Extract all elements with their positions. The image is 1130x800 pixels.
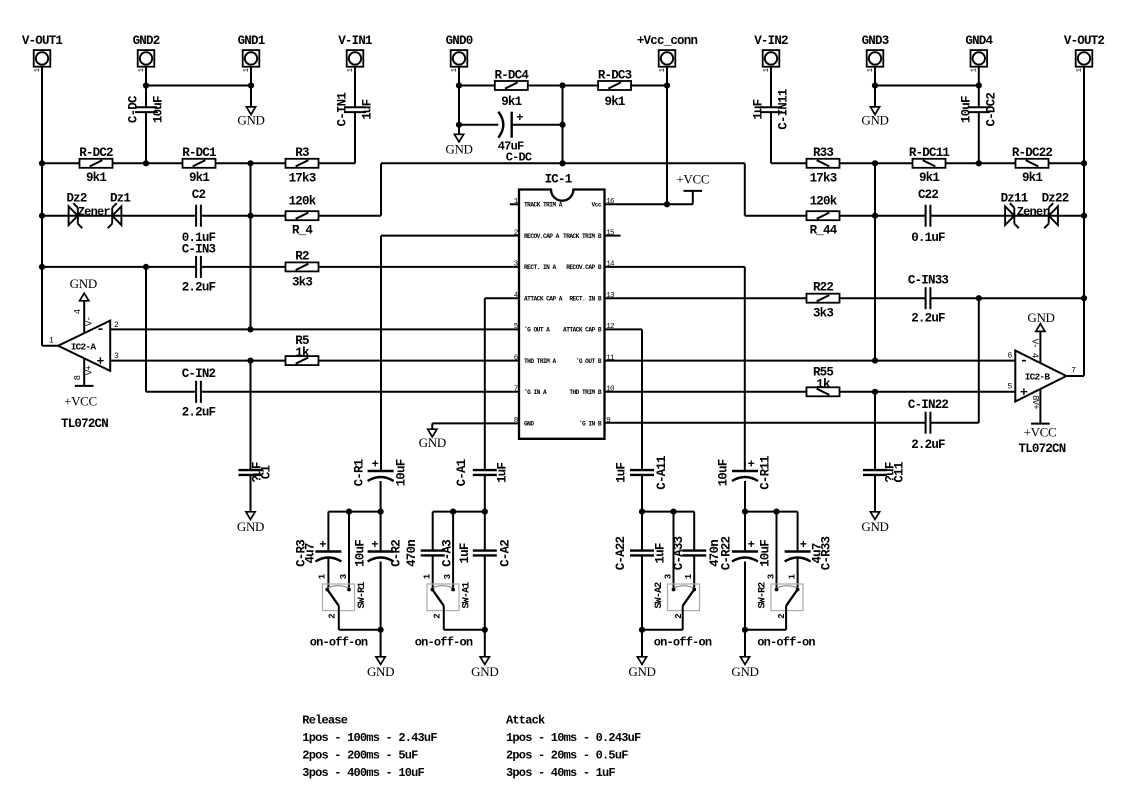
junction — [976, 160, 982, 166]
resistor R-DC2 — [80, 159, 113, 168]
wire — [444, 629, 485, 631]
ground — [454, 134, 463, 142]
svg-text:8: 8 — [73, 375, 83, 380]
junction — [143, 264, 149, 270]
svg-text:1: 1 — [971, 68, 979, 72]
svg-text:9k1: 9k1 — [605, 95, 625, 109]
wire — [338, 606, 340, 630]
svg-text:120k: 120k — [289, 195, 317, 209]
svg-text:+VCC: +VCC — [1024, 425, 1057, 440]
svg-text:1uF: 1uF — [458, 543, 472, 563]
svg-text:1: 1 — [243, 68, 251, 72]
svg-text:R2: R2 — [295, 250, 309, 264]
svg-text:TRACK TRIM B: TRACK TRIM B — [563, 233, 602, 240]
capacitor C-IN22 2.2uF — [925, 412, 927, 434]
wire — [673, 512, 675, 588]
resistor R3 — [286, 159, 319, 168]
wire — [744, 163, 746, 215]
resistor R-DC11 — [913, 159, 946, 168]
junction — [456, 122, 462, 128]
svg-text:1: 1 — [347, 68, 355, 72]
connector P3 — [243, 50, 260, 67]
wire — [562, 86, 564, 164]
ground — [637, 657, 646, 665]
svg-text:GND: GND — [237, 113, 264, 128]
wire — [339, 629, 381, 631]
wire — [42, 162, 286, 164]
wire — [874, 475, 876, 512]
junction — [976, 295, 982, 301]
wire — [978, 112, 980, 163]
svg-text:RECOV.CAP A: RECOV.CAP A — [524, 233, 560, 240]
svg-text:R22: R22 — [813, 281, 833, 295]
svg-text:C22: C22 — [918, 188, 938, 202]
wire — [328, 511, 380, 513]
svg-text:3k3: 3k3 — [813, 307, 833, 321]
wire — [381, 235, 519, 237]
svg-text:2.2uF: 2.2uF — [182, 281, 216, 295]
connector P10 — [1076, 50, 1093, 67]
svg-text:9k1: 9k1 — [501, 95, 521, 109]
capacitor C-R22 10uF — [732, 550, 758, 552]
svg-text:16: 16 — [606, 198, 615, 206]
wire — [642, 511, 694, 513]
svg-text:on-off-on: on-off-on — [654, 636, 712, 650]
capacitor C-A33 470n — [682, 549, 706, 551]
svg-text:9k1: 9k1 — [86, 171, 106, 185]
svg-text:+: + — [748, 458, 755, 472]
junction — [378, 509, 384, 515]
wire — [381, 162, 745, 164]
svg-text:C-A22: C-A22 — [614, 536, 628, 570]
svg-text:ATTACK CAP A: ATTACK CAP A — [524, 296, 563, 303]
wire — [380, 236, 382, 470]
junction — [247, 326, 253, 332]
zener diode Dz22 — [1049, 206, 1058, 225]
svg-text:11: 11 — [606, 354, 615, 362]
svg-text:C-IN22: C-IN22 — [908, 398, 949, 412]
wire — [666, 67, 668, 205]
svg-text:15: 15 — [606, 229, 615, 237]
svg-text:3pos - 40ms - 1uF: 3pos - 40ms - 1uF — [506, 766, 615, 780]
svg-text:2pos - 200ms - 5uF: 2pos - 200ms - 5uF — [302, 749, 418, 763]
svg-text:14: 14 — [606, 261, 615, 269]
svg-text:3: 3 — [339, 574, 349, 579]
svg-text:10uF: 10uF — [758, 540, 772, 567]
svg-text:IC2-B: IC2-B — [1025, 372, 1051, 383]
svg-text:on-off-on: on-off-on — [310, 636, 368, 650]
switch SW-R2 — [771, 584, 803, 611]
junction — [664, 201, 670, 207]
connector P4 — [347, 50, 364, 67]
svg-text:˚G OUT B: ˚G OUT B — [576, 358, 602, 365]
wire — [250, 475, 252, 512]
wire — [512, 124, 563, 126]
capacitor C-R33 4u7 — [785, 550, 811, 552]
svg-text:2.2uF: 2.2uF — [182, 406, 216, 420]
svg-text:+Vcc_conn: +Vcc_conn — [637, 34, 698, 48]
wire — [744, 630, 746, 657]
svg-text:Dz1: Dz1 — [110, 192, 130, 206]
svg-text:3: 3 — [766, 574, 776, 579]
wire — [745, 511, 798, 513]
wire — [146, 85, 251, 87]
svg-text:R3: R3 — [295, 146, 309, 160]
wire — [250, 163, 252, 329]
svg-text:TL072CN: TL072CN — [61, 417, 108, 431]
svg-text:13: 13 — [606, 292, 615, 300]
svg-text:SW-R2: SW-R2 — [758, 582, 769, 609]
svg-text:10uF: 10uF — [959, 96, 973, 123]
svg-text:R-DC2: R-DC2 — [79, 146, 113, 160]
junction — [1081, 213, 1087, 219]
switch SW-A2 lever — [683, 590, 695, 606]
capacitor C2 0.1uF — [195, 205, 197, 227]
svg-text:Zener: Zener — [78, 205, 111, 219]
resistor R55 — [807, 387, 840, 396]
resistor R2 — [286, 262, 319, 271]
svg-text:9: 9 — [606, 417, 610, 425]
svg-text:+VCC: +VCC — [676, 172, 709, 187]
svg-text:+: + — [371, 538, 378, 552]
svg-text:2.2uF: 2.2uF — [911, 438, 945, 452]
svg-text:C-A11: C-A11 — [655, 456, 669, 490]
svg-text:SW-A1: SW-A1 — [462, 582, 473, 609]
svg-text:GND0: GND0 — [446, 34, 473, 48]
zener diode Dz1 — [112, 206, 121, 225]
junction — [247, 160, 253, 166]
svg-text:C-R2: C-R2 — [389, 540, 403, 567]
wire — [327, 512, 329, 551]
svg-text:1k: 1k — [816, 377, 831, 391]
wire — [682, 606, 684, 630]
wire — [840, 391, 1016, 393]
wire — [874, 163, 876, 360]
svg-text:TRACK TRIM A: TRACK TRIM A — [524, 202, 563, 209]
svg-text:-: - — [96, 322, 104, 338]
svg-text:1pos - 10ms - 0.243uF: 1pos - 10ms - 0.243uF — [506, 731, 641, 745]
svg-text:8: 8 — [514, 417, 518, 425]
svg-text:THD TRIM B: THD TRIM B — [569, 389, 601, 396]
svg-text:C-A2: C-A2 — [499, 540, 513, 567]
junction — [639, 509, 645, 515]
svg-text:GND: GND — [524, 420, 534, 427]
svg-text:1: 1 — [867, 68, 875, 72]
svg-text:C-R11: C-R11 — [758, 456, 772, 490]
ground — [428, 429, 437, 437]
wire — [145, 67, 147, 108]
svg-text:C-R33: C-R33 — [820, 536, 834, 570]
svg-text:7: 7 — [514, 386, 518, 394]
ground — [870, 107, 879, 115]
connector P2 — [138, 50, 155, 67]
wire — [319, 162, 356, 164]
wire — [319, 360, 520, 362]
svg-text:GND: GND — [861, 519, 888, 534]
svg-text:470n: 470n — [405, 540, 419, 567]
capacitor C-DC 47uF — [511, 112, 513, 138]
svg-text:4: 4 — [73, 309, 83, 314]
junction — [872, 160, 878, 166]
connector P1 — [34, 50, 51, 67]
svg-text:9k1: 9k1 — [189, 171, 209, 185]
capacitor C-IN3 2.2uF — [195, 256, 197, 278]
op-amp IC2-B supply wires — [1039, 331, 1041, 374]
svg-text:2.2uF: 2.2uF — [911, 312, 945, 326]
svg-text:0.1uF: 0.1uF — [911, 231, 945, 245]
svg-text:RECT. IN B: RECT. IN B — [569, 296, 601, 303]
svg-text:SW-A2: SW-A2 — [654, 582, 665, 609]
svg-text:GND: GND — [1027, 310, 1054, 325]
capacitor C-A2 1uF — [473, 549, 497, 551]
svg-text:R33: R33 — [813, 146, 833, 160]
wire — [146, 391, 196, 393]
resistor R-DC22 — [1016, 159, 1049, 168]
wire — [605, 422, 926, 424]
svg-text:+: + — [372, 458, 379, 472]
svg-text:GND: GND — [367, 664, 394, 679]
svg-text:THD TRIM A: THD TRIM A — [524, 358, 556, 365]
svg-text:1: 1 — [138, 68, 146, 72]
wire — [528, 85, 600, 87]
wire — [380, 481, 382, 550]
wire — [930, 422, 978, 424]
wire — [641, 555, 643, 629]
wire — [1066, 375, 1084, 377]
svg-text:10uF: 10uF — [716, 459, 730, 486]
junction — [639, 627, 645, 633]
svg-text:2: 2 — [514, 229, 518, 237]
ground — [870, 512, 879, 520]
capacitor C-DC2 10uF — [968, 106, 990, 108]
svg-text:1uF: 1uF — [496, 463, 510, 483]
wire — [641, 630, 643, 657]
wire — [692, 191, 694, 204]
junction — [664, 82, 670, 88]
svg-text:4u7: 4u7 — [304, 543, 318, 563]
junction — [1081, 160, 1087, 166]
svg-text:Dz22: Dz22 — [1042, 192, 1069, 206]
svg-text:C-A33: C-A33 — [672, 536, 686, 570]
power +VCC — [75, 385, 94, 387]
wire — [630, 85, 667, 87]
wire — [110, 360, 285, 362]
wire — [201, 266, 519, 268]
wire — [605, 328, 643, 330]
wire — [693, 512, 695, 551]
svg-text:Dz11: Dz11 — [1001, 192, 1028, 206]
capacitor C-IN2 2.2uF — [195, 381, 197, 403]
capacitor C-R1 10uF — [368, 470, 394, 472]
junction — [482, 627, 488, 633]
wire — [458, 67, 460, 135]
svg-text:R-DC1: R-DC1 — [182, 146, 216, 160]
svg-text:C-IN33: C-IN33 — [908, 274, 949, 288]
svg-text:+: + — [319, 538, 326, 552]
junction — [247, 213, 253, 219]
switch SW-A1 lever — [432, 590, 444, 606]
wire — [770, 67, 772, 108]
wire — [145, 267, 147, 392]
junction — [670, 509, 676, 515]
wire — [874, 67, 876, 107]
resistor R-DC1 — [183, 159, 216, 168]
svg-text:R_44: R_44 — [810, 224, 838, 238]
op-amp U2A IC2-A — [58, 321, 110, 371]
junction — [143, 160, 149, 166]
wire — [485, 297, 519, 299]
capacitor C-R3 4u7 — [315, 550, 341, 552]
wire — [745, 629, 786, 631]
capacitor C-A3 470n — [421, 549, 445, 551]
svg-text:R_4: R_4 — [292, 224, 313, 238]
junction — [773, 509, 779, 515]
svg-text:+VCC: +VCC — [64, 394, 97, 409]
capacitor C-A11 1uF — [630, 469, 654, 471]
svg-text:on-off-on: on-off-on — [415, 636, 473, 650]
IC U1 IC-1 — [519, 190, 605, 439]
wire — [776, 512, 778, 588]
junction — [456, 82, 462, 88]
wire — [432, 422, 519, 424]
wire — [874, 392, 876, 470]
wire — [770, 112, 772, 163]
connector P6 — [659, 50, 676, 67]
svg-text:R-DC3: R-DC3 — [598, 69, 632, 83]
junction — [559, 122, 565, 128]
junction — [482, 509, 488, 515]
svg-text:1k: 1k — [295, 346, 310, 360]
wire — [41, 67, 43, 346]
svg-text:+: + — [96, 354, 104, 369]
svg-text:1: 1 — [1076, 68, 1084, 72]
ground — [246, 512, 255, 520]
svg-text:V-OUT1: V-OUT1 — [22, 34, 63, 48]
svg-text:RECOV.CAP B: RECOV.CAP B — [566, 264, 602, 271]
svg-text:1: 1 — [763, 68, 771, 72]
junction — [39, 264, 45, 270]
wire — [354, 67, 356, 108]
junction — [39, 213, 45, 219]
svg-text:GND: GND — [419, 435, 446, 450]
wire — [42, 215, 196, 217]
svg-text:GND: GND — [861, 113, 888, 128]
svg-text:ATTACK CAP B: ATTACK CAP B — [563, 327, 602, 334]
wire — [641, 329, 643, 470]
junction — [872, 213, 878, 219]
svg-text:10: 10 — [606, 386, 615, 394]
junction — [346, 509, 352, 515]
junction — [1081, 295, 1087, 301]
wire — [840, 297, 926, 299]
svg-text:SW-R1: SW-R1 — [357, 582, 368, 609]
junction — [143, 82, 149, 88]
svg-text:IC-1: IC-1 — [545, 173, 572, 187]
svg-text:C-IN2: C-IN2 — [182, 367, 216, 381]
capacitor C-R11 10uF — [732, 470, 758, 472]
svg-text:R-DC22: R-DC22 — [1012, 146, 1053, 160]
svg-text:˚G IN B: ˚G IN B — [579, 420, 602, 427]
junction — [247, 358, 253, 364]
wire — [484, 630, 486, 657]
svg-text:2: 2 — [327, 614, 337, 619]
wire — [201, 391, 519, 393]
junction — [742, 509, 748, 515]
wire — [745, 215, 926, 217]
wire — [354, 112, 356, 163]
svg-text:1uF: 1uF — [654, 543, 668, 563]
resistor R_44 120k — [807, 211, 840, 220]
svg-text:C-R22: C-R22 — [719, 536, 733, 570]
svg-text:17k3: 17k3 — [289, 172, 316, 186]
wire — [459, 124, 498, 126]
junction — [742, 627, 748, 633]
resistor R22 — [807, 294, 840, 303]
svg-text:3: 3 — [443, 574, 453, 579]
svg-text:C-A1: C-A1 — [455, 459, 469, 486]
capacitor C-A22 1uF — [630, 549, 654, 551]
wire — [145, 112, 147, 163]
capacitor C-IN11 1uF — [760, 106, 782, 108]
svg-text:10uF: 10uF — [395, 459, 409, 486]
wire — [978, 67, 980, 108]
svg-text:C-IN1: C-IN1 — [335, 93, 349, 127]
svg-text:10uF: 10uF — [354, 540, 368, 567]
wire — [744, 267, 746, 470]
svg-text:V+: V+ — [85, 366, 95, 376]
capacitor C1 ?uF — [239, 469, 263, 471]
svg-text:GND: GND — [237, 519, 264, 534]
wire — [250, 361, 252, 471]
svg-text:Release: Release — [302, 714, 347, 728]
svg-text:9k1: 9k1 — [1022, 171, 1042, 185]
wire — [431, 423, 433, 429]
wire — [42, 345, 58, 347]
wire — [432, 555, 434, 587]
wire — [432, 512, 434, 551]
zener diode Dz11 — [1005, 206, 1014, 225]
wire — [797, 557, 799, 588]
junction — [872, 389, 878, 395]
ground — [1036, 324, 1045, 332]
svg-text:1: 1 — [659, 68, 667, 72]
svg-text:R-DC11: R-DC11 — [909, 146, 950, 160]
ground — [246, 107, 255, 115]
wire — [605, 297, 807, 299]
wire — [744, 562, 746, 630]
svg-text:1: 1 — [34, 68, 42, 72]
svg-text:V- 4: V- 4 — [1030, 339, 1040, 358]
wire — [452, 512, 454, 588]
op-amp IC2-A supply wires — [83, 301, 85, 344]
svg-text:on-off-on: on-off-on — [757, 636, 815, 650]
svg-text:1uF: 1uF — [360, 99, 374, 119]
wire — [443, 606, 445, 630]
junction — [559, 82, 565, 88]
wire — [693, 555, 695, 587]
svg-text:+: + — [516, 111, 523, 125]
wire — [642, 629, 683, 631]
svg-text:V-IN1: V-IN1 — [338, 34, 372, 48]
junction — [872, 82, 878, 88]
wire — [605, 266, 745, 268]
junction — [872, 358, 878, 364]
wire — [605, 360, 1016, 362]
connector P9 — [971, 50, 988, 67]
svg-text:C1: C1 — [260, 466, 274, 480]
capacitor C-IN33 2.2uF — [925, 287, 927, 309]
svg-text:17k3: 17k3 — [810, 172, 837, 186]
